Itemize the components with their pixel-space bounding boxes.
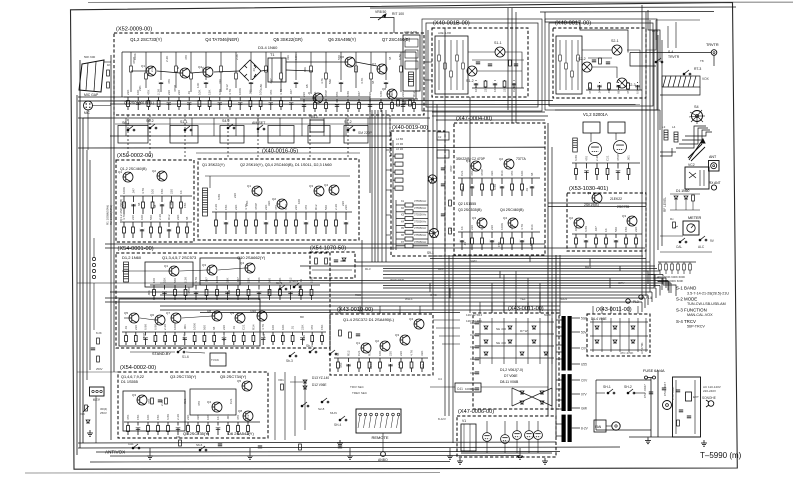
svg-text:470P: 470P [324,90,328,97]
diode D5 right matrix [613,340,617,343]
svg-text:R12: R12 [347,350,351,356]
svg-text:D1 1S555: D1 1S555 [121,380,138,384]
svg-text:68: 68 [185,216,189,220]
svg-text:.001: .001 [201,66,205,72]
svg-text:22K: 22K [503,87,507,92]
wire loop around X40-001B [426,23,538,107]
svg-text:TUN-CW-LSB-USB-AM: TUN-CW-LSB-USB-AM [687,302,726,306]
svg-text:Q1: Q1 [587,191,591,195]
antenna relay box [685,167,709,189]
svg-text:D1-4 V06E: D1-4 V06E [591,317,607,321]
svg-text:L3: L3 [662,125,666,129]
svg-text:A7 470K: A7 470K [640,342,644,354]
svg-text:C0V: C0V [581,378,588,382]
svg-text:470: 470 [310,325,314,330]
X40-0016 legs [212,212,352,234]
svg-text:3T555KHz: 3T555KHz [414,233,427,237]
tube V1 [589,143,602,156]
svg-text:56P-TRCV: 56P-TRCV [687,325,705,329]
bus verticals center [432,101,434,310]
bottom band switch CAL [132,444,140,449]
svg-text:.01: .01 [525,187,529,192]
ground bottom 1 [457,458,463,464]
svg-text:6.8K: 6.8K [379,91,383,97]
svg-text:Sb-3: Sb-3 [286,359,293,363]
svg-text:2.2K: 2.2K [157,89,161,95]
svg-text:22K: 22K [234,205,238,210]
svg-text:6.8K: 6.8K [166,414,170,420]
vertical bundle between top boxes [507,8,509,110]
svg-text:100: 100 [297,199,301,204]
module box (X47-0004-00) [454,123,545,255]
svg-text:L4 5R: L4 5R [396,137,403,141]
tube pilot tube 1 [483,433,492,442]
staircase to coils [660,151,676,153]
wire X52 out right [424,61,432,63]
svg-text:6.8K: 6.8K [153,324,157,330]
rotary switch S9-1a [428,175,436,183]
svg-text:Q5: Q5 [124,311,128,315]
diode D13 YZ140 [303,380,307,383]
switch row rails [78,117,430,119]
svg-text:1K: 1K [493,88,497,92]
power supply outer box [673,377,701,437]
svg-text:D13 YZ-140: D13 YZ-140 [312,376,329,380]
X40-0017 wires [582,49,612,51]
X54-0001 inner shield box lower [119,299,260,346]
svg-text:100: 100 [152,278,156,283]
switch band mid rail 2 [115,123,420,125]
svg-text:33K: 33K [196,415,200,420]
svg-text:GRY: GRY [618,281,624,285]
svg-text:33K: 33K [267,201,271,206]
svg-text:C2a: C2a [470,371,476,375]
left inner vertical bus [110,55,112,440]
svg-text:50V: 50V [581,330,588,334]
svg-text:33K: 33K [218,79,222,84]
svg-text:6.8K: 6.8K [217,194,221,200]
ANBO terminal [381,452,386,457]
diode D3 matrix [532,326,536,329]
diode D1 right matrix [595,326,599,329]
X47-0004 lower legs [458,232,540,250]
svg-text:C4: C4 [438,377,442,381]
X54-0002 legs [124,422,260,435]
svg-text:TRVTR: TRVTR [706,43,719,47]
svg-text:2.2K: 2.2K [310,277,314,283]
svg-text:Q1,2 2SC733(Y): Q1,2 2SC733(Y) [130,37,162,42]
svg-text:METER: METER [688,216,702,220]
svg-text:.047: .047 [132,188,136,194]
svg-text:15K: 15K [320,325,324,330]
svg-text:220: 220 [233,193,237,198]
bandswitch staircase wires [676,126,706,148]
svg-text:S2-8: S2-8 [318,407,325,411]
bottom bus lines [78,442,556,443]
svg-text:15K: 15K [156,415,160,420]
svg-text:GMI: GMI [581,406,587,410]
svg-text:Q2: Q2 [569,216,573,220]
svg-text:C21: C21 [357,350,361,356]
T1 coil X54 [124,262,129,282]
diode D5 matrix [508,340,512,343]
selector S6-2 [149,124,157,129]
svg-text:6.8K: 6.8K [398,53,402,60]
X40-001B extra parts [476,62,480,64]
svg-text:(X43-0011-00): (X43-0011-00) [508,306,544,312]
ANT terminal [709,161,720,172]
svg-text:Q4 2SC460(B): Q4 2SC460(B) [500,208,524,212]
svg-text:C58 .0047: C58 .0047 [671,386,675,400]
svg-text:.001: .001 [248,89,252,95]
right vertical bundle [641,5,643,300]
module box (X50-0002-00) [116,160,194,242]
crystal bank [396,200,428,250]
svg-text:D7 V06E: D7 V06E [504,374,518,378]
svg-text:Q5 3SK22(GR): Q5 3SK22(GR) [273,37,303,42]
svg-text:4.7K: 4.7K [520,224,524,230]
trimmer S2-3 [617,78,627,88]
module box (X40-001B-00) [432,28,528,97]
relay unit solid box [403,35,420,91]
svg-text:33K: 33K [163,278,167,283]
svg-text:68: 68 [212,326,216,330]
svg-text:R12: R12 [412,91,416,97]
svg-text:21EK22: 21EK22 [610,197,622,201]
X54-0001 inner shield box upper [145,262,193,287]
tube V2 [614,141,627,154]
svg-text:Q5 2SC734(Y): Q5 2SC734(Y) [220,374,247,379]
crystal box stubs [386,149,391,151]
X47-0006 bottom rail [461,452,552,454]
svg-text:15K: 15K [208,90,212,95]
tube pilot tube 4 [525,431,534,440]
mic wires [93,105,112,107]
svg-text:L4: L4 [672,125,676,129]
svg-text:8-2V: 8-2V [581,426,589,430]
svg-text:100: 100 [151,189,155,194]
svg-text:15K: 15K [136,415,140,420]
svg-text:R12: R12 [225,84,229,90]
svg-text:C52 .0047: C52 .0047 [643,384,647,398]
MIC jack [84,101,93,110]
svg-text:.01: .01 [232,325,236,330]
svg-text:47K: 47K [167,79,171,84]
svg-text:Q2: Q2 [375,339,379,343]
left middle wires to boxes [83,117,110,119]
svg-text:Q3: Q3 [132,393,136,397]
svg-text:220: 220 [167,90,171,95]
svg-text:BRN: BRN [585,265,591,269]
ground bottom 3 [337,440,343,446]
svg-text:1K: 1K [216,416,220,420]
power bottom rail [629,436,700,438]
svg-text:D6 2SA542(Y): D6 2SA542(Y) [228,431,254,436]
svg-text:22K: 22K [176,215,180,220]
bus jogs [529,256,531,262]
svg-text:50K 600: 50K 600 [84,55,96,59]
svg-text:SH-1: SH-1 [603,385,611,389]
variable capacitor VC2 [688,139,705,161]
svg-text:Q1,2 2SC460(B): Q1,2 2SC460(B) [120,167,147,171]
svg-text:MUN: MUN [330,411,337,415]
svg-text:C21: C21 [183,398,187,404]
svg-text:470P: 470P [132,57,136,64]
svg-text:2.2K: 2.2K [214,204,218,210]
svg-text:.047: .047 [269,78,273,84]
svg-text:Q2 2SK19(Y), Q3,4 2SC460(B),: Q2 2SK19(Y), Q3,4 2SC460(B), D1 1S011, D… [240,163,332,167]
svg-text:C21: C21 [222,335,226,341]
svg-text:Q3: Q3 [395,333,399,337]
svg-text:R12: R12 [314,204,318,210]
capacitor C5A [662,388,666,390]
X43-0011 left column caps [475,322,479,324]
svg-text:U55: U55 [581,362,587,366]
svg-text:470P: 470P [588,87,592,94]
svg-text:470P: 470P [254,203,258,210]
svg-text:2.2K: 2.2K [163,324,167,330]
svg-text:100: 100 [271,325,275,330]
svg-text:S1-1: S1-1 [180,120,188,124]
svg-text:S1-6: S1-6 [182,355,189,359]
bottom band caps [218,444,222,446]
svg-text:.047: .047 [594,226,598,232]
svg-text:TVCK: TVCK [211,358,219,362]
diode D3 right matrix [631,326,635,329]
svg-text:.047: .047 [289,89,293,95]
svg-text:6.8K: 6.8K [259,83,263,90]
X54-0002 inner box 2 [190,389,236,415]
X43 boxes to bus verticals [479,302,481,313]
power wiring verticals [650,378,652,437]
svg-text:3T555KHz: 3T555KHz [414,240,427,244]
RX ANT terminal [711,185,716,190]
svg-text:1K: 1K [107,63,111,67]
svg-text:Q3: Q3 [309,184,313,188]
svg-text:6.8K: 6.8K [284,204,288,210]
svg-text:47K: 47K [126,415,130,420]
svg-text:C21: C21 [242,324,246,330]
svg-text:D1 1N60: D1 1N60 [676,189,689,193]
svg-text:C2a: C2a [470,345,476,349]
wires 0017 to antenna area [646,30,656,50]
svg-text:2.2K: 2.2K [595,155,599,161]
svg-text:S2-2: S2-2 [578,57,586,61]
diode D4 right matrix [595,340,599,343]
svg-text:X1: X1 [401,199,405,203]
svg-text:68: 68 [137,202,141,206]
KEY connector [90,387,105,396]
top staircase to TRVTR [545,12,628,53]
svg-text:S2-1: S2-1 [611,39,619,43]
svg-text:(X50-0002-00): (X50-0002-00) [117,153,153,159]
module box (X43-0011-00) right [587,314,650,356]
svg-text:SM 220P: SM 220P [358,131,373,135]
svg-text:X3: X3 [401,213,405,217]
svg-text:1K: 1K [460,226,464,230]
svg-text:560: 560 [337,55,341,60]
svg-text:6.8K: 6.8K [574,155,578,161]
tube coupling cap box 2 [608,122,625,133]
svg-text:RL3: RL3 [365,267,371,271]
REMOTE connector [356,409,401,433]
svg-text:Q2: Q2 [272,197,276,201]
svg-text:Q3: Q3 [202,263,206,267]
trimmer S2-1 [612,45,622,55]
svg-text:470P: 470P [142,333,146,340]
svg-text:Q3 2SC733(Y): Q3 2SC733(Y) [170,374,197,379]
X43-0011 feed verticals [491,283,493,313]
svg-text:Q7 2SC460(B): Q7 2SC460(B) [382,37,411,42]
svg-text:Q4: Q4 [324,183,328,187]
svg-text:Q1: Q1 [164,264,168,268]
power wires [596,379,651,381]
svg-text:68: 68 [617,90,621,94]
svg-text:4.7K: 4.7K [510,224,514,230]
right vertical bundle 2 [657,35,659,250]
svg-text:RT-3: RT-3 [694,67,701,71]
svg-text:220: 220 [302,92,306,97]
hatched terminal strip [662,76,700,87]
svg-text:Q8: Q8 [382,87,386,91]
X40-001B inner shield box [435,36,468,94]
svg-text:3T555KHz: 3T555KHz [414,206,427,210]
bus staircase right [643,271,648,284]
mid bus y248 [105,247,645,249]
module box (X40-0019-00) [391,131,445,256]
svg-text:Q9: Q9 [230,311,234,315]
svg-text:2.2K: 2.2K [176,414,180,420]
left vertical bus [76,95,78,455]
svg-text:S6-6: S6-6 [196,443,203,447]
svg-text:Q3: Q3 [124,101,129,105]
svg-text:22K: 22K [634,227,638,232]
svg-text:ANBO: ANBO [378,458,388,462]
svg-text:33K: 33K [490,171,494,176]
selector S1-2 [347,126,355,131]
svg-text:4.7K: 4.7K [141,188,145,194]
svg-text:Q1,4,6,7,9,22: Q1,4,6,7,9,22 [121,375,144,379]
power transformer core bar left [562,316,566,442]
svg-text:S4: S4 [694,105,699,109]
top bus wires [370,7,736,8]
svg-text:S-1 BAND: S-1 BAND [676,286,696,291]
svg-text:10K: 10K [354,67,358,72]
svg-text:68: 68 [388,56,392,60]
svg-text:V1,2 S2001A: V1,2 S2001A [583,112,608,117]
svg-text:470: 470 [585,156,589,161]
svg-text:(X40-0017-00): (X40-0017-00) [555,21,591,27]
bottom band switch S6-6 [199,446,207,451]
rotary switch S4 [692,111,703,122]
wire loop around X40-0017 [549,23,653,106]
X43-0010 legs [334,358,428,372]
X54-1070 interior [315,258,318,264]
transformer secondary taps [572,317,580,319]
diode D6 matrix [532,340,536,343]
svg-text:R34: R34 [500,170,504,176]
svg-text:3T555KHz: 3T555KHz [414,199,427,203]
svg-text:X7: X7 [401,240,405,244]
svg-text:T–5990 (m): T–5990 (m) [700,451,742,460]
svg-text:GRN: GRN [470,259,477,263]
svg-text:12R 22 5R4: 12R 22 5R4 [466,313,482,317]
svg-text:4.7K: 4.7K [320,78,324,84]
svg-text:220: 220 [389,351,393,356]
X54-0001 lower legs [122,332,326,345]
svg-text:KEY: KEY [93,398,101,402]
svg-text:.01: .01 [449,228,453,232]
module box (X43-0011-00) left [473,313,559,409]
svg-text:R12: R12 [368,350,372,356]
svg-text:Q1-4 2SC372 D1 2SA490(L): Q1-4 2SC372 D1 2SA490(L) [343,317,395,322]
svg-text:(X40-001B-00): (X40-001B-00) [433,21,470,27]
X43-0010 left parts [339,330,342,336]
svg-text:2.2K: 2.2K [334,204,338,210]
svg-text:CAL: CAL [676,245,682,249]
svg-text:470: 470 [304,205,308,210]
svg-text:C5A .0047: C5A .0047 [663,382,667,396]
crystal bank left stack [393,140,403,250]
svg-text:R34: R34 [251,324,255,330]
wire bus bottom right staircase [433,319,460,321]
AC plug [706,400,714,407]
svg-text:470P: 470P [449,165,453,172]
svg-text:560: 560 [267,289,271,294]
svg-text:8-J2V: 8-J2V [438,417,446,421]
svg-text:Q1: Q1 [141,64,145,68]
svg-text:47K: 47K [335,92,339,97]
svg-text:220: 220 [131,215,135,220]
svg-text:6.8K: 6.8K [302,335,306,341]
svg-text:220: 220 [177,90,181,95]
X54-0001 inner shield box upper2 [200,258,240,285]
svg-text:07V: 07V [581,392,588,396]
svg-text:220: 220 [421,364,425,369]
svg-text:10K: 10K [146,415,150,420]
diode detector cluster [674,196,678,199]
svg-text:ALC: ALC [698,245,705,249]
svg-text:L5 3R: L5 3R [396,142,403,146]
svg-text:47K: 47K [147,399,151,404]
svg-text:ORG: ORG [430,293,438,297]
svg-text:100: 100 [480,225,484,230]
transformer T1 [268,58,286,82]
svg-text:1K: 1K [179,190,183,194]
svg-text:2.2K: 2.2K [158,214,162,220]
power box internal lines [675,380,677,434]
svg-text:15K: 15K [245,201,249,206]
svg-text:3T555KHz: 3T555KHz [414,219,427,223]
svg-text:SH-2: SH-2 [624,385,632,389]
coil L4 [674,132,678,142]
svg-text:68: 68 [371,80,375,84]
svg-text:REMOTE: REMOTE [371,435,388,440]
svg-text:33K: 33K [420,351,424,356]
rotary switch S9-1b [430,229,439,238]
svg-text:100K: 100K [500,223,504,230]
svg-text:MIC: MIC [84,111,91,115]
diode D1 matrix [484,326,488,329]
svg-text:Q1,3,4,5,7 2SC573: Q1,3,4,5,7 2SC573 [162,255,197,260]
X43-0011R grid [590,318,648,352]
svg-text:.047: .047 [574,226,578,232]
MIC gain pot trapezoid [79,60,104,92]
svg-text:560: 560 [614,227,618,232]
svg-text:Sb-1: Sb-1 [276,281,283,285]
svg-text:RF LEVEL: RF LEVEL [663,197,667,212]
svg-text:.01: .01 [252,68,256,72]
